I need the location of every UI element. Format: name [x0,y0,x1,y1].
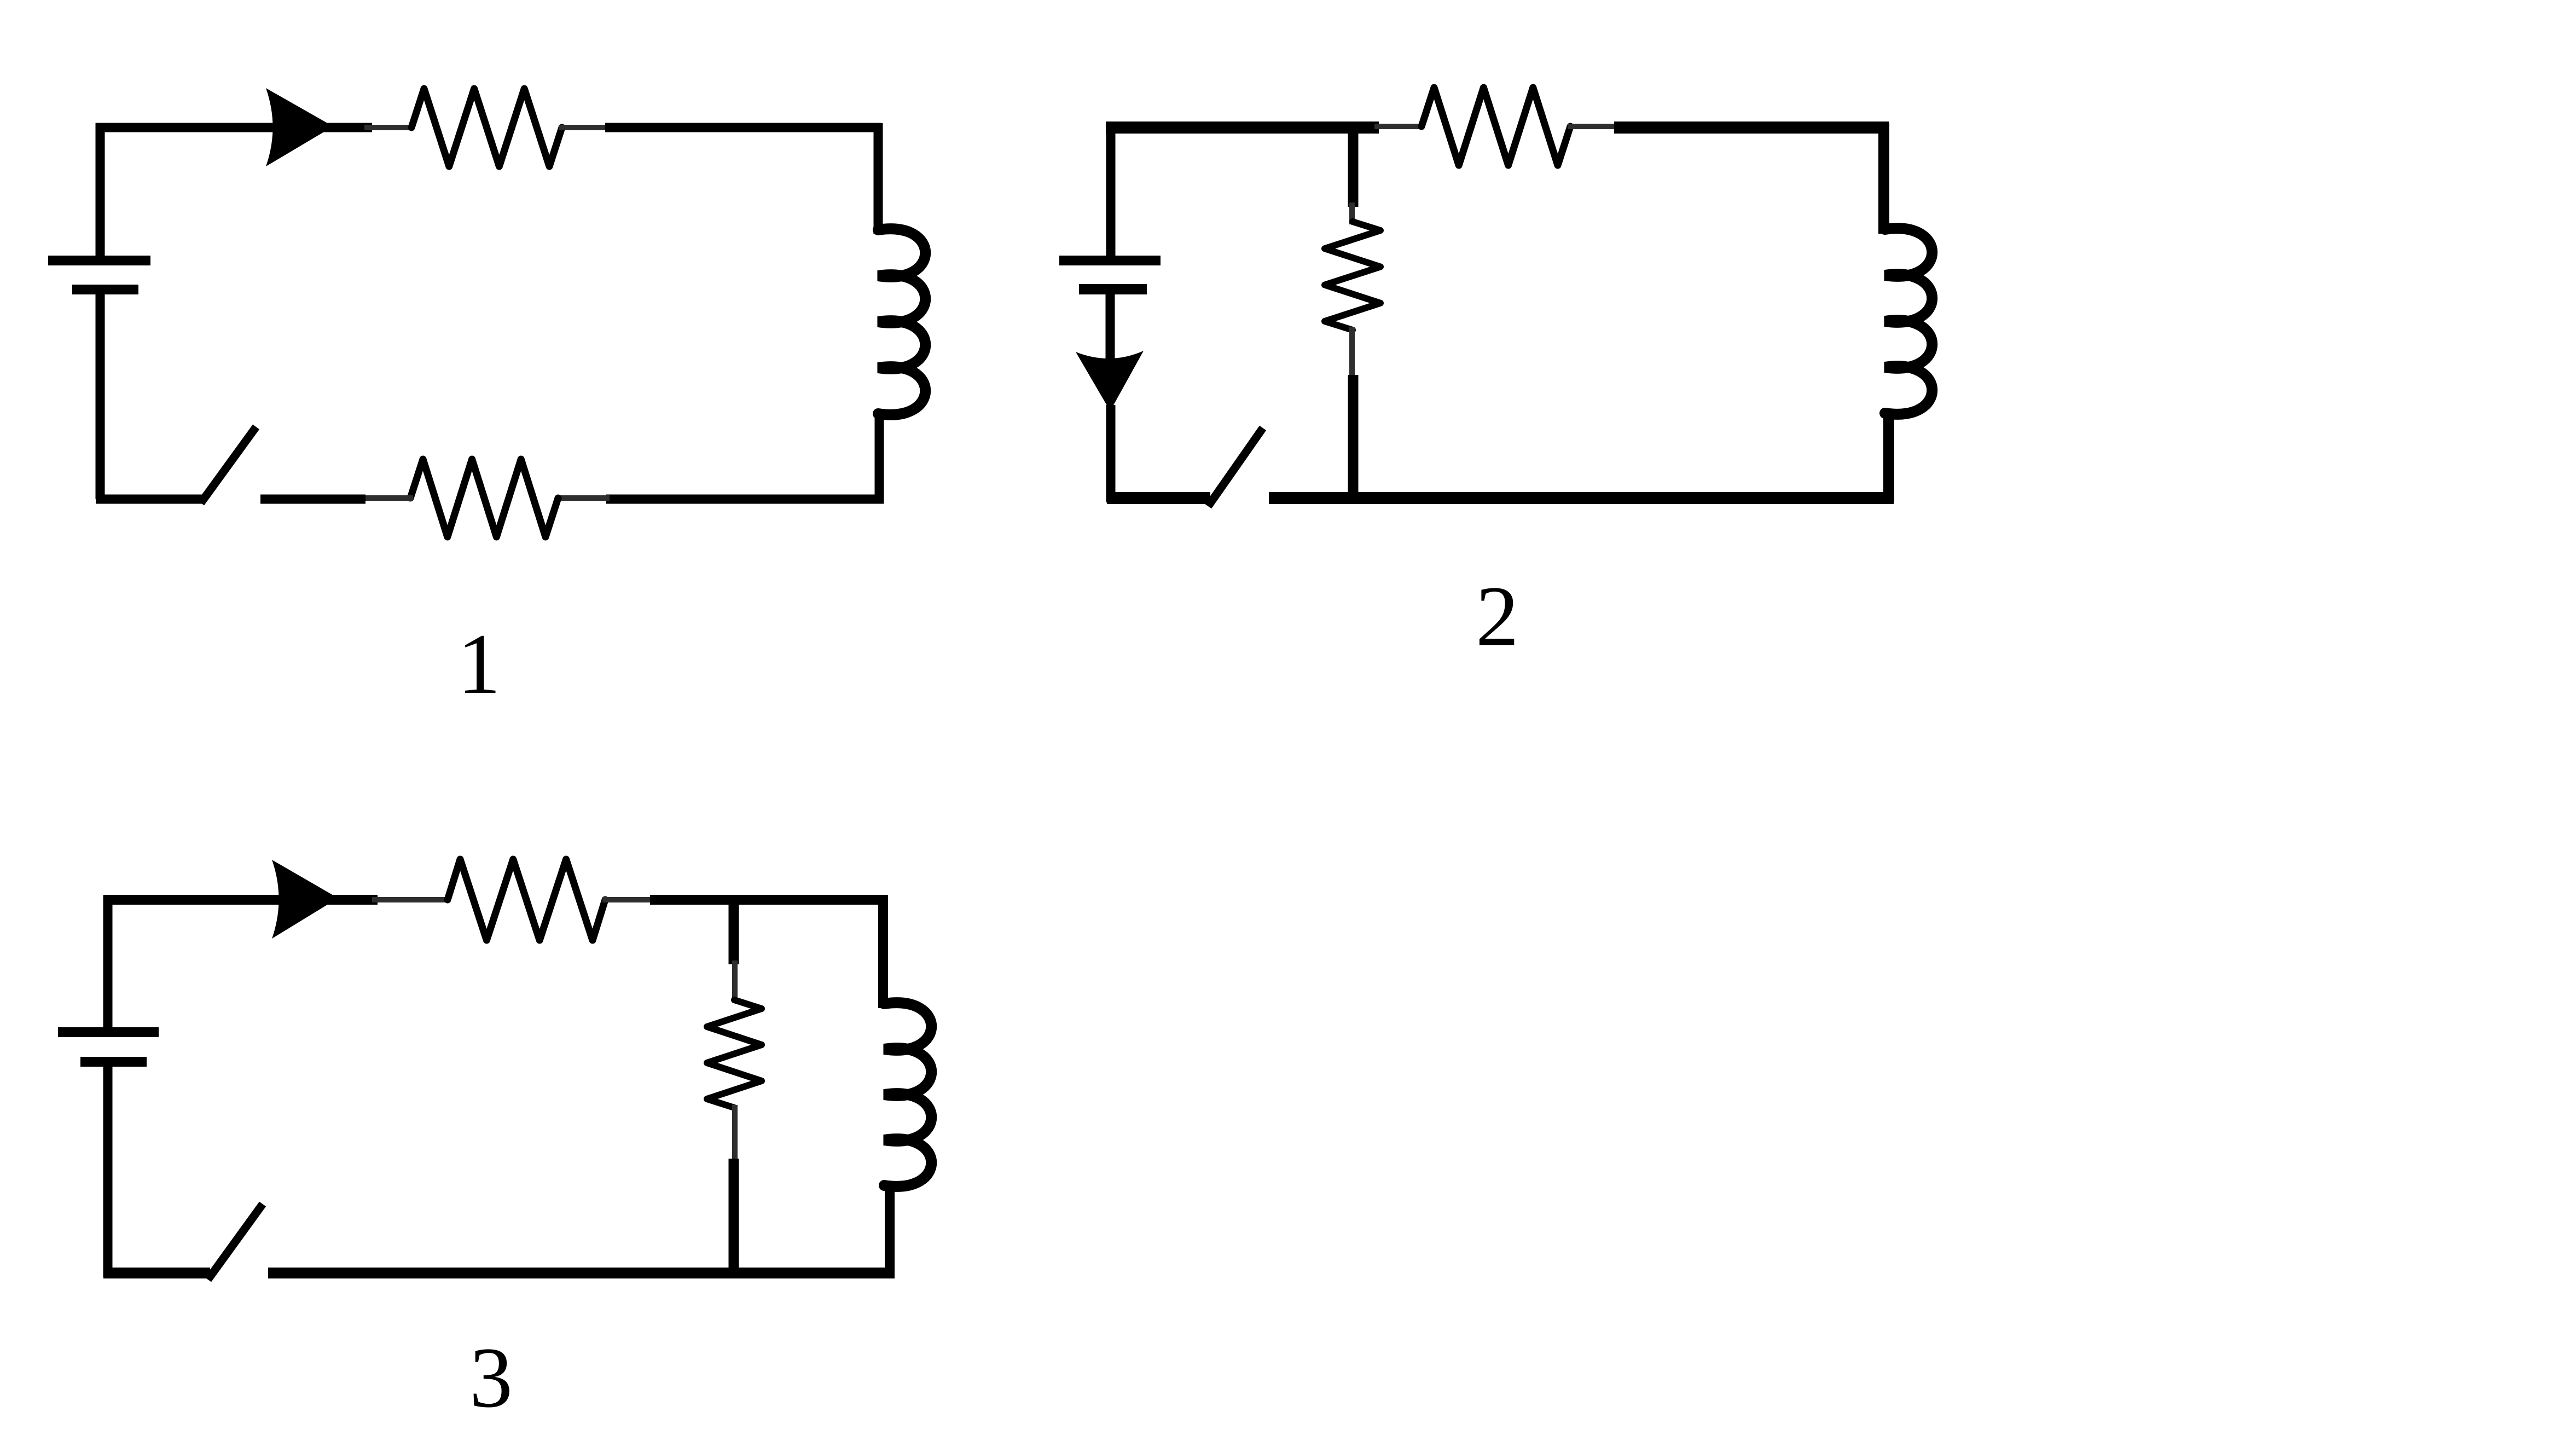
wire: lead out of top resistor (circuit 2) [1568,124,1618,129]
battery V3 short plate (circuit 3) [80,1057,147,1067]
wire: circuit 1 top-left horizontal segment [96,123,372,132]
battery V3 long plate (circuit 3) [58,1027,159,1037]
battery V2 short plate (circuit 2) [1079,284,1147,294]
wire: circuit 3 bottom horizontal segment right of switch [268,1268,895,1278]
wire: circuit 3 bottom-left segment [103,1268,210,1278]
resistor R1 (circuit 1 top) [411,89,562,166]
wire: circuit 2 bottom-left segment [1107,492,1210,504]
wire: circuit 3 right vertical below inductor [885,1182,895,1277]
wire: circuit 2 bottom horizontal segment right of switch [1269,492,1894,504]
wire: circuit 1 right vertical below inductor [875,410,884,504]
inductor L2 (circuit 2 right) [1885,228,1932,414]
wire: circuit 2 left vertical upper [1106,123,1116,256]
resistor R4 (circuit 2 middle branch) [1325,222,1380,330]
battery V1 long plate (circuit 1) [48,256,150,265]
wire: lead into middle resistor (circuit 2) [1349,202,1355,224]
current arrow (circuit 2, left wire, pointing down) [1076,351,1144,411]
resistor R3 (circuit 2 top) [1422,88,1570,165]
wire: circuit 2 top-right horizontal segment [1614,121,1889,134]
wire: lead into top resistor (circuit 1) [364,125,414,130]
svg-text:3: 3 [469,1330,513,1426]
resistor R6 (circuit 3 middle branch) [707,1000,762,1108]
wire: lead out of top resistor (circuit 1) [559,125,608,130]
wire: lead into bottom resistor (circuit 1) [362,495,413,501]
wire: circuit 1 top-right horizontal segment [605,123,881,132]
wire: circuit 2 top-left horizontal segment [1106,121,1379,134]
svg-text:2: 2 [1476,569,1519,664]
wire: circuit 3 left vertical upper [103,895,113,1027]
svg-text:1: 1 [457,616,501,712]
wire: circuit 3 top-left horizontal segment [103,895,378,905]
wire: circuit 2 middle branch lower [1348,375,1359,498]
current arrow (circuit 3, top wire, pointing right) [272,860,338,939]
wire: circuit 3 middle branch upper [729,900,739,964]
wire: circuit 3 top-right horizontal segment [650,895,887,905]
wire: circuit 1 bottom segment right of switch [260,495,365,504]
wire: circuit 1 right vertical above inductor [874,123,883,234]
wire: circuit 2 middle branch upper [1348,128,1359,207]
inductor L3 (circuit 3 right) [884,1003,931,1187]
current arrow (circuit 1, top wire, pointing right) [266,88,333,166]
resistor R5 (circuit 3 top) [448,859,605,940]
wire: circuit 3 right vertical above inductor [878,895,888,1008]
wire: lead out of middle resistor (circuit 2) [1349,327,1355,379]
battery V1 short plate (circuit 1) [72,285,138,294]
switch S2 blade (circuit 2, open) [1208,428,1263,506]
wire: lead out of top resistor (circuit 3) [602,897,653,902]
wire: circuit 2 left vertical between battery and arrow [1106,294,1115,361]
switch S1 blade (circuit 1, open) [201,427,256,503]
switch S3 blade (circuit 3, open) [208,1204,263,1280]
wire: circuit 1 bottom-left segment [96,495,202,504]
wire: lead into top resistor (circuit 2) [1374,124,1424,129]
resistor R2 (circuit 1 bottom) [410,459,558,537]
wire: circuit 2 right vertical below inductor [1883,410,1894,502]
battery V2 long plate (circuit 2) [1059,256,1161,265]
wire: lead into top resistor (circuit 3) [372,897,450,902]
wire: circuit 2 right vertical above inductor [1878,123,1889,234]
wire: circuit 1 left vertical lower [96,123,105,256]
wire: lead out of bottom resistor (circuit 1) [556,495,610,501]
wire: lead out of middle resistor (circuit 3) [732,1105,738,1162]
inductor L1 (circuit 1 right) [878,229,925,415]
wire: circuit 1 left vertical upper [96,294,105,499]
wire: lead into middle resistor (circuit 3) [732,960,738,1003]
wire: circuit 3 middle branch lower [729,1159,739,1273]
wire: circuit 2 left vertical below arrow [1106,405,1116,502]
wire: circuit 3 left vertical lower [103,1066,113,1277]
wire: circuit 1 bottom-right horizontal segment [606,495,884,504]
